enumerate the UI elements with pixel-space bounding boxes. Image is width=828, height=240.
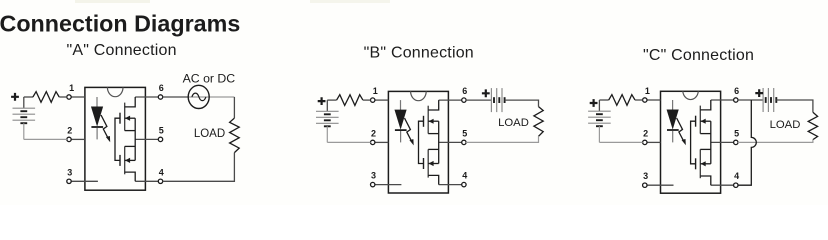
pin 2 terminal of U-B — [375, 141, 389, 143]
MOSFET Q2 of U-C: body lead with arrow — [700, 163, 711, 165]
svg-text:1: 1 — [69, 83, 74, 93]
wire pin 6 to AC source — [163, 96, 189, 98]
MOSFET Q1 of U-B: channel — [427, 106, 429, 134]
MOSFET Q1 of U-B: drain lead to pin 6 — [428, 100, 439, 110]
battery B-A (input supply) — [23, 97, 25, 108]
wire battery B-C2 to load R-LC — [776, 100, 813, 112]
resistor R-C (input series) — [609, 95, 635, 106]
input LED of U-B: anode lead — [400, 100, 402, 110]
pin 3 terminal of U-A (n.c.) — [71, 180, 98, 182]
wire load R-LA down to pin 4 — [163, 153, 235, 182]
MOSFET Q1 of U-A: drain lead to pin 6 — [125, 97, 136, 107]
pin 4 terminal of U-C — [711, 184, 734, 186]
svg-text:6: 6 — [734, 86, 739, 96]
wire battery B-A bottom to pin 2 — [24, 138, 67, 140]
common gate rail inside U-B — [419, 121, 424, 163]
svg-text:LOAD: LOAD — [194, 128, 225, 140]
MOSFET Q2 of U-B: gate bar — [423, 158, 425, 169]
input LED of U-C: cathode lead — [672, 131, 674, 143]
optocoupler package U-C outline — [661, 91, 721, 193]
pin 6 terminal of U-C — [711, 99, 734, 101]
svg-text:LOAD: LOAD — [770, 119, 801, 131]
svg-text:"A" Connection: "A" Connection — [66, 42, 176, 59]
svg-text:6: 6 — [159, 83, 164, 93]
svg-text:6: 6 — [462, 86, 467, 96]
pin 3 terminal of U-B (n.c.) — [375, 184, 402, 186]
MOSFET Q2 of U-B: body lead with arrow — [428, 163, 439, 165]
svg-text:AC or DC: AC or DC — [183, 71, 236, 85]
pin 6 terminal of U-B — [439, 99, 462, 101]
MOSFET Q2 of U-A: source lead — [125, 145, 136, 147]
battery B-C2 (load supply) — [762, 88, 764, 112]
AC source V-A: wire through — [188, 96, 234, 98]
wire battery B-B bottom to pin 2 — [327, 141, 370, 143]
pin 1 terminal of U-C — [647, 99, 661, 101]
MOSFET Q1 of U-C: drain lead to pin 6 — [700, 100, 711, 110]
input LED of U-A: triangle — [92, 107, 103, 125]
MOSFET Q2 of U-C: drain lead to pin 4 — [700, 176, 711, 185]
pin 5 terminal of U-C — [711, 141, 734, 143]
svg-text:5: 5 — [159, 125, 164, 135]
MOSFET Q2 of U-A: body lead with arrow — [125, 159, 136, 161]
svg-text:3: 3 — [371, 171, 376, 181]
optocoupler package U-A outline — [85, 87, 145, 190]
plus sign at battery B-B — [318, 97, 326, 105]
pin 1 terminal of U-A — [71, 96, 85, 98]
svg-text:2: 2 — [67, 125, 72, 135]
package U-B pin-1 notch — [411, 91, 427, 100]
MOSFET Q2 of U-A: drain lead to pin 4 — [125, 172, 136, 181]
MOSFET Q2 of U-C: gate bar — [695, 158, 697, 169]
load resistor R-LA — [230, 118, 240, 153]
pin 1 terminal of U-B — [375, 99, 389, 101]
pin 6 terminal of U-A — [135, 96, 158, 98]
svg-text:1: 1 — [373, 86, 378, 96]
AC source V-A circle — [188, 85, 209, 108]
pin 4 terminal of U-A — [135, 180, 158, 182]
svg-text:5: 5 — [462, 128, 467, 138]
svg-text:1: 1 — [645, 86, 650, 96]
svg-text:3: 3 — [67, 167, 72, 177]
MOSFET Q1 of U-A: body lead with arrow — [125, 117, 136, 119]
input LED of U-A: anode lead — [96, 97, 98, 107]
MOSFET Q1 of U-B: source lead — [428, 133, 439, 135]
light-coupling arrow inside U-A — [101, 115, 108, 138]
MOSFET Q1 of U-A: channel — [124, 103, 126, 131]
MOSFET Q2 of U-A: gate bar — [119, 155, 121, 166]
plus sign at battery B-B2 — [482, 89, 490, 97]
battery B-B (input supply) — [326, 100, 328, 111]
svg-text:2: 2 — [643, 128, 648, 138]
MOSFET Q2 of U-A: channel — [124, 146, 126, 174]
wire battery B-C top to resistor — [599, 99, 608, 101]
pin 2 terminal of U-C — [647, 141, 661, 143]
light-coupling arrow inside U-C — [677, 118, 684, 141]
resistor R-B (input series) — [337, 95, 363, 106]
svg-text:5: 5 — [734, 128, 739, 138]
MOSFET Q1 of U-A: source lead — [125, 130, 136, 132]
resistor R-A (input series) — [33, 92, 59, 103]
MOSFET Q1 of U-B: body lead with arrow — [428, 120, 439, 122]
svg-text:"C" Connection: "C" Connection — [643, 47, 754, 64]
wire AC source down to load R-LA — [233, 97, 235, 118]
pin 4 terminal of U-B — [439, 184, 462, 186]
optocoupler package U-B outline — [388, 91, 448, 193]
pin 3 terminal of U-C (n.c.) — [647, 184, 674, 186]
common gate rail inside U-A — [115, 118, 120, 160]
common gate rail inside U-C — [691, 121, 696, 164]
plus sign at battery B-C — [590, 99, 598, 107]
svg-text:3: 3 — [643, 171, 648, 181]
MOSFET Q2 of U-B: drain lead to pin 4 — [428, 175, 439, 184]
svg-text:"B" Connection: "B" Connection — [364, 44, 474, 61]
package U-C pin-1 notch — [683, 91, 699, 99]
wire battery B-C bottom to pin 2 — [599, 141, 642, 143]
plus sign at battery B-C2 — [755, 89, 763, 97]
MOSFET Q1 of U-A: gate bar — [119, 113, 121, 124]
svg-text:2: 2 — [371, 128, 376, 138]
light-coupling arrow inside U-B — [405, 118, 412, 141]
MOSFET Q1 of U-C: source lead — [700, 133, 711, 135]
pin 2 terminal of U-A — [71, 138, 85, 140]
MOSFET Q1 of U-C: body lead with arrow — [700, 120, 711, 122]
input LED of U-B: cathode bar — [395, 129, 407, 131]
input LED of U-A: cathode lead — [96, 128, 98, 139]
AC source V-A sine symbol — [192, 93, 206, 101]
common source rail of U-A — [134, 118, 136, 160]
pin 5 terminal of U-B — [439, 141, 462, 143]
common source rail of U-C — [710, 121, 712, 164]
MOSFET Q2 of U-C: source lead — [700, 148, 711, 150]
pin 5 terminal of U-A — [135, 138, 158, 140]
input LED of U-C: cathode bar — [667, 129, 679, 131]
common source rail of U-B — [438, 121, 440, 163]
svg-text:4: 4 — [734, 171, 739, 181]
MOSFET Q1 of U-B: gate bar — [423, 116, 425, 127]
wire load R-LC down and back to pin 5 — [738, 140, 813, 143]
input LED of U-B: triangle — [395, 110, 406, 128]
battery B-B2 (load supply) — [490, 88, 492, 112]
input LED of U-C: triangle — [667, 110, 678, 128]
wire battery B-B top to resistor — [327, 99, 336, 101]
MOSFET Q1 of U-C: channel — [699, 106, 701, 134]
svg-text:LOAD: LOAD — [498, 117, 529, 129]
MOSFET Q2 of U-B: channel — [427, 149, 429, 177]
wire battery B-A top to resistor — [24, 96, 33, 98]
wire load R-LB down and back to pin 5 — [466, 136, 539, 142]
wire pin 6 to battery B-C2 — [738, 99, 763, 101]
svg-text:4: 4 — [159, 167, 164, 177]
input LED of U-C: anode lead — [672, 100, 674, 110]
load resistor R-LB — [534, 107, 543, 137]
svg-text:4: 4 — [462, 171, 467, 181]
wire pin 6 to battery B-B2 — [466, 99, 491, 101]
svg-text:Connection Diagrams: Connection Diagrams — [0, 11, 240, 37]
package U-A pin-1 notch — [107, 87, 123, 96]
input LED of U-B: cathode lead — [400, 131, 402, 142]
wire battery B-B2 to load R-LB — [505, 100, 539, 107]
input LED of U-A: cathode bar — [91, 126, 103, 128]
battery B-C (input supply) — [598, 100, 600, 111]
MOSFET Q2 of U-C: channel — [699, 149, 701, 178]
plus sign at battery B-A — [11, 93, 19, 101]
load resistor R-LC — [808, 112, 817, 139]
jumper wire pin 6 to pin 4 with hop over pin 5 wire — [738, 100, 756, 185]
MOSFET Q2 of U-B: source lead — [428, 148, 439, 150]
MOSFET Q1 of U-C: gate bar — [695, 116, 697, 127]
